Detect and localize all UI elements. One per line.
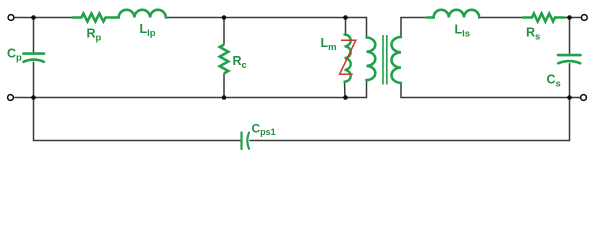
wire bottom-left rail — [14, 97, 366, 99]
junction top-Rc — [222, 15, 227, 20]
wire top-middle rail — [166, 17, 367, 19]
inductor Lm — [345, 35, 351, 82]
junction top-Cp — [31, 15, 36, 20]
wire top-right rail segment — [479, 17, 522, 19]
wire Rc branch leads — [223, 18, 225, 98]
wire Lm branch leads — [345, 18, 346, 98]
inductor Llp — [116, 10, 166, 18]
saturation mark (red) on Lm — [340, 40, 356, 74]
wire secondary top lead — [401, 18, 427, 38]
resistor Rs — [522, 14, 565, 22]
junction bottom-Rc — [222, 95, 227, 100]
resistor Rc — [220, 45, 229, 74]
wire lower rail right — [249, 98, 569, 141]
junction bottom-Cs — [567, 95, 572, 100]
wire top-left rail — [14, 17, 72, 19]
wire secondary bottom rail — [401, 83, 580, 98]
wire Cp branch — [33, 18, 35, 98]
junction top-Cs — [567, 15, 572, 20]
wire lower rail left — [34, 98, 242, 141]
terminal top-right — [581, 15, 587, 21]
capacitor Cs — [558, 55, 581, 63]
wire Cs branch — [569, 18, 571, 98]
wire primary bottom lead — [366, 80, 368, 98]
transformer primary winding — [367, 38, 376, 81]
transformer core — [383, 35, 387, 85]
capacitor Cp — [23, 54, 44, 62]
inductor Lls — [427, 10, 480, 18]
terminal bottom-right — [581, 95, 587, 101]
terminal bottom-left — [8, 95, 14, 101]
wire primary top lead — [366, 17, 368, 38]
junction bottom-Cp — [31, 95, 36, 100]
resistor Rp — [72, 14, 116, 22]
junction bottom-Lm — [343, 95, 348, 100]
terminal top-left — [8, 15, 14, 21]
wire top-right terminal segment — [565, 17, 581, 19]
junction top-Lm — [343, 15, 348, 20]
transformer secondary winding — [392, 37, 402, 83]
capacitor Cps1 — [242, 133, 250, 150]
